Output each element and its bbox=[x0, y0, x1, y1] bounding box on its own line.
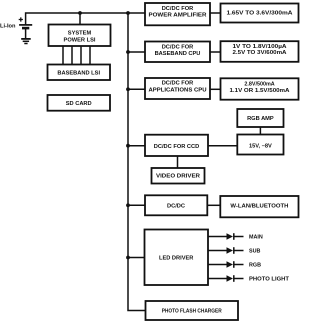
wire led output main bbox=[208, 236, 227, 238]
box W-LAN/BLUETOOTH bbox=[220, 196, 298, 217]
svg-text:SUB: SUB bbox=[249, 249, 260, 255]
box VIDEO DRIVER bbox=[152, 168, 205, 184]
node junction bus row3 bbox=[126, 87, 130, 91]
box BASEBAND LSI bbox=[48, 65, 111, 81]
svg-text:SD CARD: SD CARD bbox=[66, 101, 92, 107]
svg-text:RGB AMP: RGB AMP bbox=[247, 116, 274, 122]
svg-text:APPLICATIONS CPU: APPLICATIONS CPU bbox=[149, 87, 207, 93]
wire LSI interconnect 2 bbox=[71, 46, 73, 65]
wire LSI interconnect 1 bbox=[62, 46, 64, 65]
wire row1 bbox=[210, 12, 221, 14]
wire led output sub bbox=[208, 250, 227, 252]
battery B1 negative plate bbox=[22, 27, 29, 30]
wire LSI interconnect 4 bbox=[89, 46, 91, 65]
wire led output rgb bbox=[208, 264, 227, 266]
svg-text:POWER AMPLIFIER: POWER AMPLIFIER bbox=[149, 13, 207, 19]
svg-text:Li-Ion: Li-Ion bbox=[0, 24, 15, 30]
svg-text:DC/DC: DC/DC bbox=[167, 204, 185, 210]
battery plus sign bbox=[19, 17, 23, 21]
node junction bus ccd bbox=[126, 144, 130, 148]
svg-text:2.5V TO 3V/600mA: 2.5V TO 3V/600mA bbox=[233, 50, 287, 56]
svg-text:DC/DC FOR: DC/DC FOR bbox=[162, 81, 194, 87]
wire bus to applications cpu dcdc bbox=[128, 88, 145, 90]
box DC/DC FOR CCD bbox=[145, 135, 208, 156]
wire ccd to 15V box bbox=[208, 145, 237, 147]
svg-text:MAIN: MAIN bbox=[249, 235, 263, 241]
svg-text:1.65V TO 3.6V/300mA: 1.65V TO 3.6V/300mA bbox=[227, 11, 293, 17]
svg-text:BASEBAND CPU: BASEBAND CPU bbox=[155, 51, 201, 57]
wire main to label bbox=[235, 236, 244, 238]
box DC/DC FOR POWER AMPLIFIER bbox=[145, 3, 210, 25]
wire row3 bbox=[210, 88, 221, 90]
node junction bus top bbox=[126, 11, 130, 15]
node junction bus row2 bbox=[126, 50, 130, 54]
box 1.65V TO 3.6V/300mA bbox=[221, 4, 299, 23]
box DC/DC FOR APPLICATIONS CPU bbox=[145, 78, 210, 99]
svg-text:DC/DC FOR CCD: DC/DC FOR CCD bbox=[154, 144, 200, 150]
wire bus to dcdc bbox=[128, 204, 145, 206]
svg-text:1.1V OR 1.5V/500mA: 1.1V OR 1.5V/500mA bbox=[230, 88, 290, 94]
svg-text:15V, –8V: 15V, –8V bbox=[249, 143, 272, 149]
box 15V -8V bbox=[237, 135, 283, 155]
svg-text:RGB: RGB bbox=[249, 263, 261, 269]
box SYSTEM POWER LSI bbox=[49, 25, 111, 47]
wire rgb to label bbox=[235, 264, 244, 266]
wire vertical bus bbox=[128, 13, 146, 311]
wire top rail from battery to DC/DC for power amplifier bbox=[26, 13, 145, 25]
node junction bus led driver bbox=[126, 256, 130, 260]
box SD CARD bbox=[48, 95, 111, 111]
LED diode main bbox=[227, 233, 234, 240]
node junction bus dcdc bbox=[126, 203, 130, 207]
wire led output photo light bbox=[208, 278, 227, 280]
box DC/DC FOR BASEBAND CPU bbox=[145, 42, 210, 63]
wire sub to label bbox=[235, 250, 244, 252]
svg-text:LED DRIVER: LED DRIVER bbox=[159, 256, 193, 262]
LED diode photo light bbox=[227, 275, 234, 282]
wire battery to ground bbox=[25, 29, 27, 38]
box 2.8V/500mA 1.1V OR 1.5V/500mA bbox=[221, 78, 299, 99]
wire bus to baseband cpu dcdc bbox=[128, 51, 145, 53]
box RGB AMP bbox=[237, 109, 283, 127]
box DC/DC bbox=[145, 195, 207, 215]
wire LSI interconnect 3 bbox=[80, 46, 82, 65]
wire bus to led driver bbox=[128, 257, 145, 259]
wire photo light to label bbox=[235, 278, 244, 280]
svg-text:PHOTO LIGHT: PHOTO LIGHT bbox=[249, 277, 290, 283]
ground bbox=[21, 38, 31, 40]
svg-text:2.8V/500mA: 2.8V/500mA bbox=[244, 82, 274, 88]
svg-text:SYSTEM: SYSTEM bbox=[68, 31, 92, 37]
box 1V TO 1.8V/100uA 2.5V TO 3V/600mA bbox=[221, 41, 299, 62]
svg-text:POWER LSI: POWER LSI bbox=[64, 37, 96, 43]
svg-text:DC/DC FOR: DC/DC FOR bbox=[162, 6, 194, 12]
LED diode sub bbox=[227, 247, 234, 254]
svg-text:W-LAN/BLUETOOTH: W-LAN/BLUETOOTH bbox=[230, 203, 288, 209]
svg-text:1V TO 1.8V/100µA: 1V TO 1.8V/100µA bbox=[233, 44, 287, 50]
box PHOTO FLASH CHARGER bbox=[146, 301, 239, 320]
svg-text:BASEBAND LSI: BASEBAND LSI bbox=[57, 70, 100, 76]
battery B1 Li-Ion positive plate bbox=[19, 24, 32, 26]
node junction above SYSTEM POWER LSI bbox=[78, 11, 82, 15]
box LED DRIVER bbox=[145, 230, 209, 286]
wire row2 bbox=[210, 51, 221, 53]
wire ccd to video driver bbox=[177, 156, 179, 168]
LED diode rgb bbox=[227, 261, 234, 268]
svg-text:PHOTO FLASH CHARGER: PHOTO FLASH CHARGER bbox=[162, 308, 222, 314]
wire from top rail down to SYSTEM POWER LSI bbox=[79, 13, 81, 25]
wire bus to ccd dcdc bbox=[128, 145, 145, 147]
wire dcdc to wlan bbox=[207, 204, 220, 206]
svg-text:DC/DC FOR: DC/DC FOR bbox=[162, 44, 194, 50]
svg-text:VIDEO DRIVER: VIDEO DRIVER bbox=[156, 173, 200, 179]
wire RGB AMP to 15V box bbox=[259, 127, 261, 135]
